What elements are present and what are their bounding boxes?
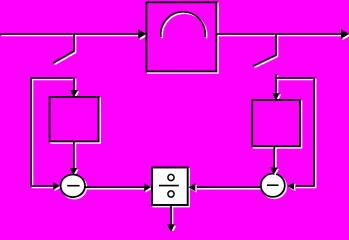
arrowhead: main line into block U1 bbox=[138, 29, 148, 40]
arrowhead into sum S1 (left input) bbox=[53, 182, 61, 191]
divide symbol: top dot bbox=[168, 174, 174, 180]
arrowhead into sum S2 (top input) bbox=[270, 168, 279, 176]
sum junction S1 (left circle) bbox=[61, 175, 87, 199]
wire: right tap with diagonal segment bbox=[253, 34, 278, 68]
wire: main input line (left edge to block U1) bbox=[0, 34, 141, 36]
wire: left tap with diagonal segment bbox=[53, 34, 76, 65]
block G2: right square block bbox=[252, 100, 301, 148]
wire: sum S1 output to divider D1 bbox=[85, 187, 146, 189]
block G1: left square block bbox=[50, 97, 100, 143]
wire: right feed L-shape (tap stub, to block G2 input and sum S2 right input) bbox=[276, 74, 316, 188]
wire: main output line (block U1 to right edge) bbox=[216, 34, 342, 36]
wire: block G2 output to sum S2 bbox=[274, 146, 276, 169]
arrowhead into sum S2 (right input) bbox=[287, 182, 295, 191]
sum junction S2 (right circle) bbox=[261, 174, 286, 199]
arrowhead into divider D1 (left input) bbox=[144, 183, 152, 192]
divide symbol: fraction bar bbox=[159, 185, 179, 187]
arrowhead: bottom output at image edge bbox=[167, 224, 176, 233]
arrowhead into block G1 (top) bbox=[70, 90, 79, 99]
arrowhead into divider D1 (right input) bbox=[189, 183, 197, 192]
wire: divider D1 output (down) bbox=[171, 206, 173, 226]
block D1: divide block (white) bbox=[152, 168, 189, 207]
minus sign in S2 bbox=[267, 184, 279, 186]
divide symbol: bottom dot bbox=[168, 191, 174, 197]
arc symbol inside U1 bbox=[161, 12, 207, 39]
wire: sum S2 output to divider D1 bbox=[196, 187, 263, 189]
arrowhead into block G2 (top) bbox=[272, 93, 281, 102]
wire: block G1 output to sum S1 bbox=[74, 142, 76, 170]
wire: left feed L-shape (to block G1 input and sum S1 left input) bbox=[31, 78, 76, 188]
arrowhead into sum S1 (top input) bbox=[70, 168, 79, 176]
block U1: arc/sqrt block (top center) bbox=[146, 2, 217, 72]
arrowhead: main line at right edge bbox=[341, 29, 349, 40]
minus sign in S1 bbox=[67, 185, 79, 187]
